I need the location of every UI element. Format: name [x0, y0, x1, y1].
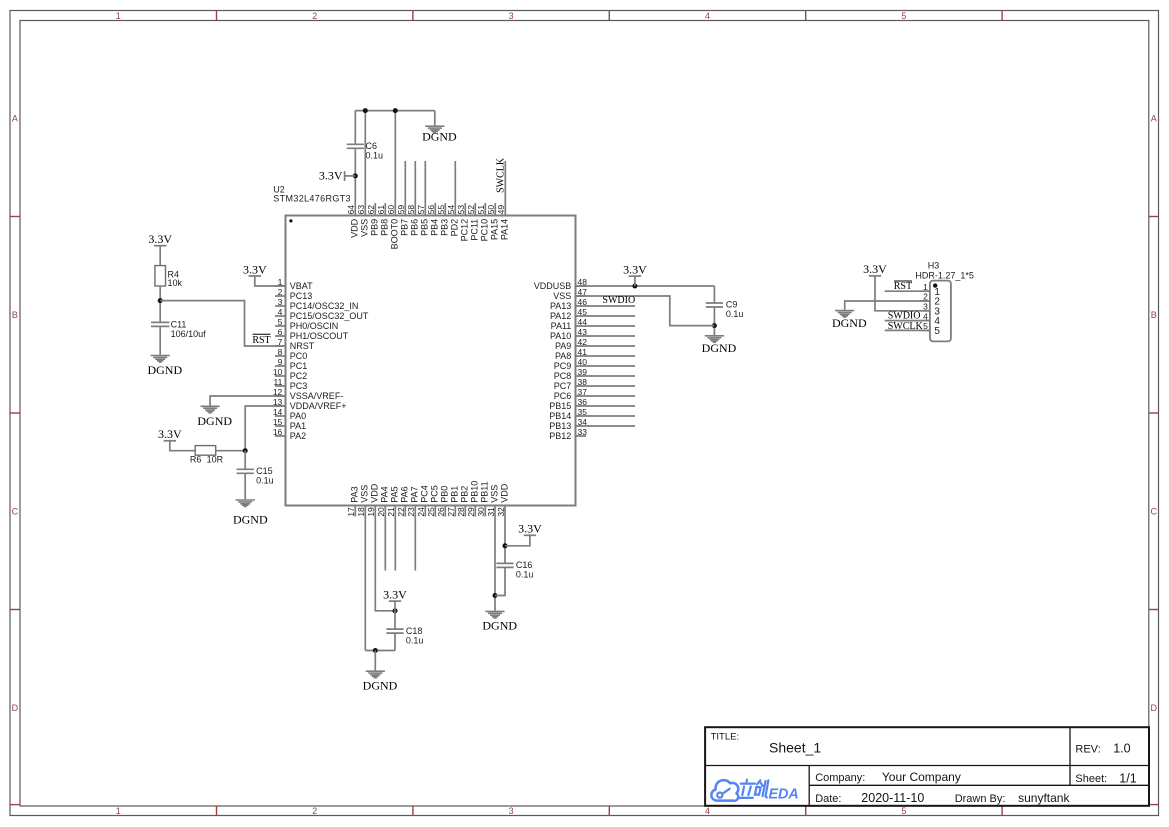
H3 pin-1 marker dot — [933, 283, 937, 287]
svg-text:6: 6 — [278, 327, 283, 337]
U2 pin 34 PB13 — [549, 417, 635, 431]
svg-text:15: 15 — [273, 417, 283, 427]
U2 pin 5 PH0/OSCIN — [275, 317, 338, 331]
svg-text:PA5: PA5 — [390, 486, 400, 502]
svg-text:DGND: DGND — [147, 363, 182, 377]
U2 pin 26 PB0 — [436, 486, 450, 517]
svg-text:61: 61 — [376, 205, 386, 215]
U2 pin 37 PC6 — [554, 387, 635, 401]
wire H3 pin5 SWCLK — [885, 329, 930, 331]
connector H3 body — [930, 281, 951, 342]
svg-text:C9: C9 — [726, 300, 738, 310]
svg-text:63: 63 — [356, 205, 366, 215]
svg-text:35: 35 — [578, 407, 588, 417]
wire pin 32 VDD down to C16 — [504, 506, 506, 564]
wire H3 pin2 to ground — [845, 301, 930, 310]
svg-text:PC10: PC10 — [480, 219, 490, 242]
wire 3.3V flag to junction — [394, 601, 396, 611]
U2 pin 27 PB1 — [446, 486, 460, 517]
svg-text:REV:: REV: — [1075, 744, 1100, 756]
U2 pin 21 PA5 — [386, 486, 400, 570]
svg-text:1: 1 — [116, 11, 121, 21]
U2 pin 19 VDD — [366, 483, 380, 516]
svg-text:PB8: PB8 — [380, 219, 390, 236]
svg-text:PC9: PC9 — [554, 361, 572, 371]
U2 pin 30 PB11 — [476, 481, 490, 516]
junction pin32/3.3V — [503, 543, 508, 548]
svg-text:C6: C6 — [366, 141, 378, 151]
svg-text:29: 29 — [466, 507, 476, 517]
svg-text:sunyftank: sunyftank — [1018, 791, 1070, 805]
svg-text:106/10uf: 106/10uf — [171, 329, 207, 339]
wire pin 19 VDD down and right — [375, 506, 395, 611]
wire pin64 below C6 to chip — [354, 148, 356, 215]
svg-text:PA11: PA11 — [551, 321, 572, 331]
3.3V power flag above pin48 — [623, 262, 647, 276]
capacitor C9 — [706, 303, 723, 307]
3.3V power flag above R4 — [148, 232, 172, 246]
svg-text:PC14/OSC32_IN: PC14/OSC32_IN — [290, 301, 359, 311]
svg-text:H3: H3 — [928, 260, 940, 270]
svg-text:3: 3 — [509, 11, 514, 21]
3.3V power flag above R6 — [158, 427, 182, 441]
svg-text:21: 21 — [386, 507, 396, 517]
svg-text:A: A — [1151, 114, 1157, 124]
wire 3.3V to H3 pin3 — [875, 276, 930, 311]
svg-text:PD2: PD2 — [450, 219, 460, 237]
U2 pin 51 PC10 — [476, 203, 490, 241]
U2 pin 43 PA10 — [550, 327, 635, 341]
wire H3 pin4 SWDIO — [885, 320, 930, 322]
svg-text:0.1u: 0.1u — [516, 570, 534, 580]
svg-text:DGND: DGND — [233, 512, 268, 526]
frame row letters right — [1150, 114, 1157, 713]
svg-text:STM32L476RGT3: STM32L476RGT3 — [273, 194, 351, 204]
svg-text:PB3: PB3 — [440, 219, 450, 236]
svg-text:8: 8 — [278, 347, 283, 357]
svg-text:PB11: PB11 — [480, 481, 490, 502]
U2 pin-1 marker dot — [289, 219, 292, 222]
op-amp U2 body STM32L476RGT3 — [286, 216, 576, 506]
svg-text:33: 33 — [578, 427, 588, 437]
svg-text:10k: 10k — [168, 278, 183, 288]
svg-text:PA4: PA4 — [380, 486, 390, 502]
wire R6 to junction — [216, 450, 246, 452]
3.3V power flag (rotated) at pin 64 — [319, 168, 355, 182]
svg-text:40: 40 — [578, 357, 588, 367]
resistor R6 — [195, 446, 216, 456]
svg-text:Your Company: Your Company — [882, 770, 961, 784]
U2 pin 36 PB15 — [549, 397, 635, 411]
net label RST (overline) at H3 — [894, 281, 912, 292]
svg-text:PA3: PA3 — [350, 486, 360, 502]
U2 pin 46 PA13 — [550, 297, 635, 311]
U2 pin 22 PA6 — [396, 486, 410, 516]
svg-text:57: 57 — [416, 205, 426, 215]
svg-text:Sheet:: Sheet: — [1075, 773, 1107, 785]
svg-text:27: 27 — [446, 507, 456, 517]
svg-text:SWDIO: SWDIO — [602, 295, 635, 306]
wire pin 47 VSS to C9 bottom — [576, 296, 715, 326]
ground DGND (top rail) — [422, 126, 457, 144]
title block outer box — [705, 727, 1149, 806]
node junction 3.3V on pin64 wire — [353, 173, 358, 178]
U2 pin 57 PB5 — [416, 161, 430, 236]
svg-text:PA2: PA2 — [290, 431, 306, 441]
svg-text:PB12: PB12 — [549, 431, 571, 441]
U2 pin 1 VBAT — [275, 277, 313, 291]
svg-text:PA14: PA14 — [500, 219, 510, 240]
U2 pin 44 PA11 — [551, 317, 635, 331]
capacitor C16 — [496, 563, 513, 567]
U2 pin 12 VSSA/VREF- — [273, 387, 343, 401]
wire junction to ground — [374, 651, 376, 671]
U2 pin 31 VSS — [486, 485, 500, 517]
U2 pin 33 PB12 — [549, 427, 587, 441]
wire pin 18 VSS down — [364, 506, 366, 651]
svg-text:PA8: PA8 — [555, 351, 571, 361]
junction pin60/rail — [393, 108, 398, 113]
svg-text:49: 49 — [496, 205, 506, 215]
U2 pin 45 PA12 — [550, 307, 635, 321]
svg-text:VDD: VDD — [370, 483, 380, 503]
svg-text:C18: C18 — [406, 626, 423, 636]
U2 pin 20 PA4 — [376, 486, 390, 570]
U2 pin 61 PB8 — [376, 203, 390, 236]
wire C11 to ground — [159, 326, 161, 354]
junction pin31/pin32 — [493, 593, 498, 598]
svg-text:PC2: PC2 — [290, 371, 308, 381]
svg-text:Sheet_1: Sheet_1 — [769, 740, 821, 756]
U2 pin 59 PB7 — [396, 161, 410, 236]
junction pin63/rail — [363, 108, 368, 113]
U2 pin 62 PB9 — [366, 203, 380, 236]
svg-text:C: C — [1150, 506, 1157, 516]
svg-text:C11: C11 — [171, 319, 187, 329]
U2 pin 28 PB2 — [456, 486, 470, 517]
U2 pin 24 PC4 — [416, 485, 430, 516]
ground DGND (pin31) — [482, 611, 517, 632]
U2 pin 48 VDDUSB — [534, 277, 587, 291]
svg-text:4: 4 — [278, 307, 283, 317]
svg-text:VSS: VSS — [490, 485, 500, 503]
svg-text:B: B — [12, 310, 18, 320]
U2 pin 60 BOOT0 — [386, 205, 400, 250]
svg-text:DGND: DGND — [363, 679, 398, 693]
svg-text:39: 39 — [578, 367, 588, 377]
3.3V power flag near C16 — [518, 522, 542, 536]
svg-text:PC15/OSC32_OUT: PC15/OSC32_OUT — [290, 311, 369, 321]
capacitor C15 — [237, 469, 254, 473]
svg-text:55: 55 — [436, 205, 446, 215]
ground DGND (C15) — [233, 500, 268, 526]
svg-text:3.3V: 3.3V — [158, 427, 182, 441]
svg-text:PB15: PB15 — [549, 401, 571, 411]
svg-text:36: 36 — [578, 397, 588, 407]
3.3V power flag at pin1 — [243, 262, 267, 276]
wire 3.3V flag to pin48 wire — [634, 276, 636, 286]
svg-text:RST: RST — [894, 281, 912, 292]
capacitor C6 — [347, 144, 364, 148]
U2 pin 8 PC0 — [275, 347, 307, 361]
svg-text:0.1u: 0.1u — [406, 635, 424, 645]
U2 pin 55 PB3 — [436, 203, 450, 236]
svg-text:PB9: PB9 — [370, 219, 380, 236]
U2 pin 53 PC12 — [456, 203, 470, 241]
svg-text:3.3V: 3.3V — [383, 587, 407, 601]
title block divider row2 — [809, 784, 1149, 786]
svg-text:19: 19 — [366, 507, 376, 517]
svg-text:PA0: PA0 — [290, 411, 306, 421]
3.3V power flag at H3 — [863, 262, 887, 276]
wire C16 to pin31 junction — [495, 567, 505, 595]
svg-text:0.1u: 0.1u — [256, 476, 274, 486]
H3 pin 2 — [921, 292, 941, 308]
svg-text:PB6: PB6 — [410, 219, 420, 236]
svg-text:44: 44 — [578, 317, 588, 327]
svg-text:PC6: PC6 — [554, 391, 572, 401]
svg-text:59: 59 — [396, 205, 406, 215]
svg-text:51: 51 — [476, 205, 486, 215]
ground DGND (VSSA) — [197, 406, 232, 428]
svg-text:PA10: PA10 — [550, 331, 571, 341]
svg-text:2: 2 — [312, 11, 317, 21]
junction pin48/3.3V — [632, 284, 637, 289]
wire 3.3V to R4 — [159, 246, 161, 266]
junction C9/pin47 — [712, 323, 717, 328]
U2 pin 49 PA14 — [496, 161, 510, 240]
U2 pin 56 PB4 — [426, 203, 440, 236]
logo text 立创 strokes — [738, 780, 768, 798]
U2 pin 41 PA8 — [555, 347, 635, 361]
svg-text:EDA: EDA — [769, 787, 799, 803]
svg-text:17: 17 — [346, 507, 356, 517]
3.3V power flag above C18 — [383, 587, 407, 601]
svg-text:41: 41 — [578, 347, 588, 357]
wire H3 pin1 RST — [885, 290, 930, 292]
capacitor C11 — [151, 322, 169, 326]
U2 pin 7 NRST — [275, 337, 315, 351]
svg-text:4: 4 — [705, 806, 710, 816]
svg-text:3.3V: 3.3V — [243, 262, 267, 276]
svg-text:5: 5 — [901, 11, 906, 21]
svg-text:PA15: PA15 — [490, 219, 500, 240]
svg-text:50: 50 — [486, 205, 496, 215]
svg-text:20: 20 — [376, 507, 386, 517]
U2 pin 39 PC8 — [554, 367, 635, 381]
U2 pin 13 VDDA/VREF+ — [273, 397, 347, 411]
svg-text:54: 54 — [446, 205, 456, 215]
svg-text:2: 2 — [312, 806, 317, 816]
svg-text:DGND: DGND — [422, 130, 457, 144]
svg-text:Drawn By:: Drawn By: — [955, 793, 1006, 805]
U2 pin 14 PA0 — [273, 407, 306, 421]
svg-text:PC7: PC7 — [554, 381, 572, 391]
svg-text:PB2: PB2 — [460, 486, 470, 503]
svg-text:46: 46 — [578, 297, 588, 307]
svg-text:HDR-1.27_1*5: HDR-1.27_1*5 — [915, 270, 974, 280]
svg-text:3.3V: 3.3V — [863, 262, 887, 276]
wire ground rail horizontal — [355, 110, 435, 112]
svg-text:PB14: PB14 — [549, 411, 571, 421]
U2 pin 6 PH1/OSCOUT — [275, 327, 349, 341]
svg-text:PC1: PC1 — [290, 361, 308, 371]
svg-text:45: 45 — [578, 307, 588, 317]
svg-text:PA7: PA7 — [410, 486, 420, 502]
svg-text:VSS: VSS — [553, 291, 571, 301]
svg-text:C15: C15 — [256, 466, 273, 476]
U2 pin 11 PC3 — [273, 377, 307, 391]
title block divider logo cell — [808, 766, 810, 806]
svg-text:PC0: PC0 — [290, 351, 308, 361]
svg-text:PC11: PC11 — [470, 219, 480, 241]
svg-text:BOOT0: BOOT0 — [390, 219, 400, 250]
ground DGND (C18) — [363, 671, 398, 693]
svg-text:10: 10 — [273, 367, 283, 377]
capacitor C18 — [386, 629, 403, 633]
svg-text:5: 5 — [901, 806, 906, 816]
junction R4/C11/NRST — [158, 298, 163, 303]
svg-text:PC8: PC8 — [554, 371, 572, 381]
svg-text:42: 42 — [578, 337, 588, 347]
U2 pin 50 PA15 — [486, 203, 500, 240]
U2 pin 9 PC1 — [275, 357, 307, 371]
svg-text:58: 58 — [406, 205, 416, 215]
svg-text:D: D — [1150, 703, 1157, 713]
wire pin 13 VDDA to junction — [245, 406, 285, 451]
U2 pin 42 PA9 — [555, 337, 635, 351]
H3 pin 3 — [921, 302, 941, 318]
svg-text:25: 25 — [426, 507, 436, 517]
svg-text:PB13: PB13 — [549, 421, 571, 431]
svg-text:PH0/OSCIN: PH0/OSCIN — [290, 321, 339, 331]
title block divider row1 — [705, 765, 1149, 767]
logo LCEDA cloud icon — [711, 780, 738, 801]
svg-text:2020-11-10: 2020-11-10 — [861, 791, 924, 805]
svg-text:26: 26 — [436, 507, 446, 517]
wire pin63 VSS to rail — [364, 111, 366, 216]
svg-text:PB10: PB10 — [470, 481, 480, 503]
svg-text:VDD: VDD — [500, 483, 510, 503]
wire bottom rail horizontal — [365, 650, 395, 652]
frame column ticks top — [217, 11, 1003, 21]
wire pin60 BOOT0 to rail — [394, 111, 396, 216]
svg-text:PB4: PB4 — [430, 219, 440, 236]
svg-text:5: 5 — [278, 317, 283, 327]
title block divider rev cell — [1069, 727, 1071, 785]
svg-text:0.1u: 0.1u — [726, 309, 744, 319]
svg-text:1: 1 — [116, 806, 121, 816]
H3 pin 4 — [921, 311, 941, 327]
U2 pin 10 PC2 — [273, 367, 307, 381]
svg-text:11: 11 — [273, 377, 282, 387]
wire 3.3V flag to R6 — [170, 441, 195, 451]
svg-text:VDD: VDD — [350, 218, 360, 238]
svg-text:PA13: PA13 — [550, 301, 571, 311]
svg-text:DGND: DGND — [832, 316, 867, 330]
svg-text:37: 37 — [578, 387, 588, 397]
ground DGND (H3) — [832, 311, 867, 330]
svg-text:DGND: DGND — [197, 414, 232, 428]
wire rail down to ground — [434, 111, 436, 126]
svg-text:PA9: PA9 — [555, 341, 571, 351]
svg-text:VDDUSB: VDDUSB — [534, 281, 572, 291]
net label RST (overline) — [252, 334, 270, 346]
svg-text:1.0: 1.0 — [1113, 742, 1130, 756]
svg-text:14: 14 — [273, 407, 283, 417]
svg-text:RST: RST — [252, 335, 270, 346]
wire C9 bottom to ground — [713, 307, 715, 335]
svg-text:PB1: PB1 — [450, 486, 460, 503]
svg-text:DGND: DGND — [482, 618, 517, 632]
H3 pin 5 — [921, 321, 941, 337]
wire pin 48 VDDUSB to C9 — [576, 285, 715, 287]
svg-text:D: D — [12, 703, 19, 713]
svg-text:A: A — [12, 114, 18, 124]
svg-text:PB0: PB0 — [440, 486, 450, 503]
svg-text:60: 60 — [386, 205, 396, 215]
svg-text:5: 5 — [934, 326, 940, 337]
svg-text:9: 9 — [278, 357, 283, 367]
svg-text:PB5: PB5 — [420, 219, 430, 236]
U2 pin 35 PB14 — [549, 407, 635, 421]
wire VDD rail pin64 vertical — [354, 111, 356, 145]
junction pin19/C18/3.3V — [393, 608, 398, 613]
svg-text:3: 3 — [509, 806, 514, 816]
svg-text:PH1/OSCOUT: PH1/OSCOUT — [290, 331, 349, 341]
svg-text:30: 30 — [476, 507, 486, 517]
svg-text:DGND: DGND — [702, 341, 737, 355]
svg-text:3.3V: 3.3V — [623, 262, 647, 276]
svg-text:PC5: PC5 — [430, 485, 440, 503]
svg-text:PC3: PC3 — [290, 381, 308, 391]
U2 pin 32 VDD — [496, 483, 510, 516]
svg-text:R6: R6 — [190, 455, 202, 465]
svg-text:VDDA/VREF+: VDDA/VREF+ — [290, 401, 347, 411]
junction R6/C15/VDDA — [243, 448, 248, 453]
svg-text:3.3V: 3.3V — [319, 168, 343, 182]
svg-text:VSS: VSS — [360, 219, 370, 237]
U2 pin 58 PB6 — [406, 161, 420, 236]
svg-text:3: 3 — [278, 297, 283, 307]
U2 pin 2 PC13 — [275, 287, 312, 301]
svg-text:24: 24 — [416, 507, 426, 517]
U2 pin 3 PC14/OSC32_IN — [275, 297, 358, 311]
wire C15 to ground — [244, 473, 246, 499]
svg-text:28: 28 — [456, 507, 466, 517]
wire R4 to junction — [159, 286, 161, 322]
U2 pin 16 PA2 — [273, 427, 306, 441]
U2 pin 52 PC11 — [466, 203, 480, 241]
svg-text:22: 22 — [396, 507, 406, 517]
svg-text:2: 2 — [278, 287, 283, 297]
svg-text:3.3V: 3.3V — [148, 232, 172, 246]
svg-text:B: B — [1151, 310, 1157, 320]
svg-text:PA6: PA6 — [400, 486, 410, 502]
svg-text:3.3V: 3.3V — [518, 522, 542, 536]
U2 pin 63 VSS — [356, 205, 370, 237]
svg-text:VSS: VSS — [360, 485, 370, 503]
U2 pin 4 PC15/OSC32_OUT — [275, 307, 369, 321]
U2 pin 23 PA7 — [406, 486, 420, 570]
U2 pin 54 PD2 — [446, 161, 460, 236]
svg-text:PA12: PA12 — [550, 311, 571, 321]
ground DGND (C9) — [702, 336, 737, 355]
svg-text:56: 56 — [426, 205, 436, 215]
svg-text:VSSA/VREF-: VSSA/VREF- — [290, 391, 344, 401]
wire C18 to bottom rail — [394, 633, 396, 650]
svg-text:64: 64 — [346, 205, 356, 215]
